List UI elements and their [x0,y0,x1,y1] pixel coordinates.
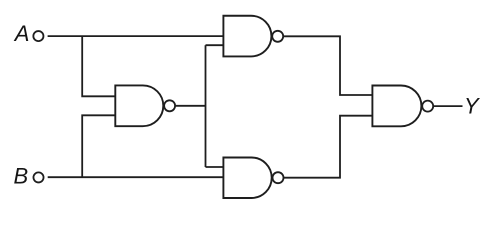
wire U4 output to Y [434,105,463,107]
wire node N1 to NAND2 lower input [206,44,224,46]
wire A branch down to NAND1 top input [82,36,115,96]
NAND gate U4 body (output) [372,86,421,127]
NAND gate U2 inversion bubble [272,31,283,42]
svg-text:Y: Y [464,94,480,119]
NAND gate U4 inversion bubble [422,101,433,112]
wire B branch up to NAND1 bottom input [82,115,115,177]
NAND gate U2 body (top) [223,16,271,57]
input terminal A [33,31,43,41]
svg-text:A: A [13,21,30,46]
wire U2 output to NAND4 top input [284,36,373,95]
NAND gate U1 body (middle-left) [115,85,163,126]
wire B to NAND3 input [48,176,224,178]
wire U1 output to node N1 [176,105,206,107]
wire A to NAND2 input [48,35,224,37]
NAND gate U1 inversion bubble [164,100,175,111]
NAND gate U3 body (bottom) [223,158,271,199]
input terminal B [33,172,43,182]
NAND gate U3 inversion bubble [273,172,284,183]
wire U3 output to NAND4 bottom input [284,116,373,178]
node N1 vertical wire [205,45,207,167]
svg-text:B: B [14,164,29,189]
wire node N1 to NAND3 upper input [206,166,224,168]
